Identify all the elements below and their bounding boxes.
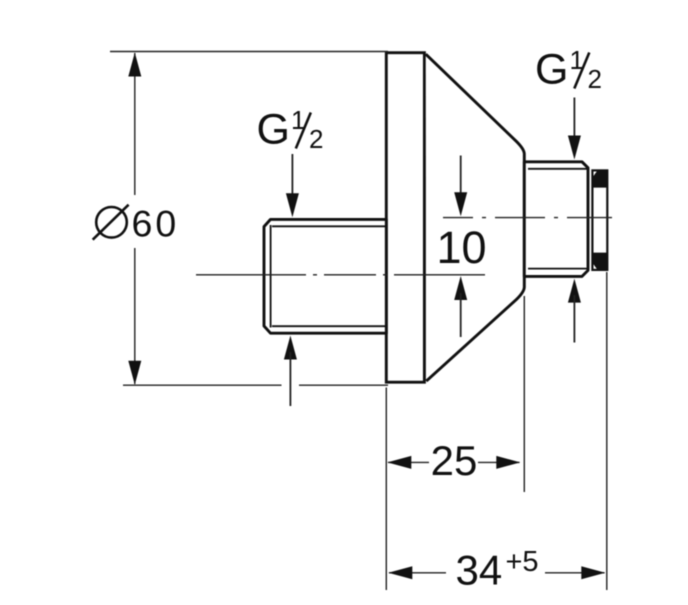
dim 34 right extension line: [606, 272, 608, 590]
right G half leader arrowhead: [568, 136, 581, 160]
dia60 dimension line lower segment: [134, 248, 136, 384]
dia60 bottom extension line segment left: [123, 384, 282, 386]
dim 25 right arrowhead: [496, 456, 520, 469]
right G half leader arrow stem: [573, 98, 575, 143]
left G half leader arrow stem: [291, 154, 293, 200]
cone body: [426, 54, 525, 381]
svg-text:2: 2: [588, 64, 602, 94]
left G half leader arrowhead: [286, 193, 299, 217]
offset 10 lower arrow stem: [460, 293, 462, 337]
svg-text:34: 34: [456, 547, 503, 594]
dia60 diameter symbol circle: [96, 207, 127, 238]
left stub thread relief vertical: [270, 225, 272, 328]
left stub thread crest line bottom: [272, 325, 386, 327]
svg-text:+5: +5: [506, 546, 539, 578]
offset 10 upper arrowhead: [454, 192, 467, 216]
offset 10 upper arrow stem: [460, 156, 462, 199]
left G half label fraction slash: [296, 113, 311, 149]
dia60 diameter symbol slash: [93, 205, 129, 240]
dim 25 line left segment: [388, 461, 429, 463]
dim 34 line right segment: [545, 572, 605, 574]
centerline of left stub axis: [196, 274, 485, 276]
right stub thread crest line top: [528, 168, 587, 170]
left threaded stub outline: [264, 219, 386, 333]
left stub lower leader arrow stem: [289, 352, 291, 406]
right G half label fraction slash: [574, 53, 589, 89]
centerline of right stub axis: [443, 217, 617, 219]
dim 25 left extension line: [385, 388, 387, 591]
dim 25 right extension line: [523, 296, 525, 492]
dim 25 line right segment: [478, 461, 520, 463]
dim 25 left arrowhead: [387, 456, 411, 469]
svg-text:G: G: [257, 106, 290, 154]
dim 34 left arrowhead: [388, 566, 412, 579]
right stub thread crest line bottom: [528, 268, 587, 270]
right stub lower leader arrowhead: [568, 279, 581, 303]
seal washer outline: [592, 170, 607, 270]
svg-text:2: 2: [309, 124, 323, 154]
wall flange body: [386, 53, 424, 383]
dia60 arrowhead down: [128, 361, 141, 385]
seal washer top black section: [592, 170, 607, 187]
left stub lower leader arrowhead: [284, 336, 297, 360]
svg-text:25: 25: [431, 437, 478, 484]
offset 10 lower arrowhead: [454, 276, 467, 300]
dim 34 right arrowhead: [581, 566, 605, 579]
dim 34 line left segment: [389, 572, 446, 574]
svg-text:60: 60: [132, 202, 180, 244]
svg-text:10: 10: [436, 222, 486, 273]
right stub lower leader arrow stem: [573, 295, 575, 343]
left stub thread crest line top: [272, 225, 386, 227]
dia60 top extension line: [110, 51, 388, 53]
dia60 bottom extension line segment right: [299, 384, 388, 386]
seal washer bottom black section: [592, 253, 607, 270]
right threaded stub outline: [524, 162, 588, 277]
dia60 dimension line upper segment: [134, 53, 136, 195]
dia60 arrowhead up: [128, 53, 141, 77]
svg-text:G: G: [535, 46, 568, 94]
